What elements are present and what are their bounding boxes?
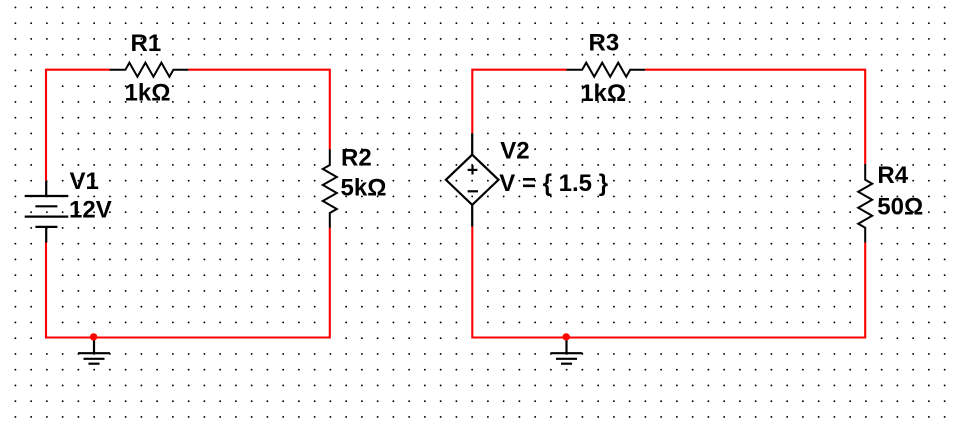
value 5kOhm — [341, 175, 387, 202]
node junction — [563, 333, 570, 340]
value 50Ohm — [877, 193, 923, 220]
wire — [46, 228, 330, 338]
label R1 — [131, 30, 162, 57]
ground right — [551, 338, 583, 364]
wire — [46, 70, 110, 181]
battery V1 — [25, 181, 69, 243]
value 1kOhm — [580, 80, 626, 107]
label R4 — [877, 162, 908, 189]
wire — [472, 227, 865, 338]
svg-text:1kΩ: 1kΩ — [580, 80, 626, 107]
wire underlay (erase grid under wires) — [46, 70, 865, 338]
label V2 — [500, 138, 529, 165]
svg-text:V1: V1 — [70, 168, 99, 195]
resistor R2 — [323, 149, 337, 228]
source V2 — [446, 133, 499, 226]
value V = { 1.5 } — [499, 170, 608, 197]
ground left — [78, 338, 110, 364]
label R2 — [341, 145, 372, 172]
resistor R3 — [567, 63, 646, 77]
svg-text:1kΩ: 1kΩ — [125, 79, 171, 106]
resistor R4 — [858, 164, 872, 243]
svg-text:12V: 12V — [69, 197, 112, 224]
svg-text:R1: R1 — [131, 30, 162, 57]
wire — [645, 70, 865, 164]
svg-text:R2: R2 — [341, 145, 372, 172]
svg-text:50Ω: 50Ω — [877, 193, 923, 220]
svg-text:5kΩ: 5kΩ — [341, 175, 387, 202]
node junction — [90, 333, 97, 340]
svg-text:R4: R4 — [877, 162, 908, 189]
label V1 — [70, 168, 99, 195]
svg-text:V2: V2 — [500, 138, 529, 165]
value 1kOhm — [125, 79, 171, 106]
svg-text:R3: R3 — [589, 30, 620, 57]
wire — [472, 70, 566, 134]
label R3 — [589, 30, 620, 57]
value 12V — [69, 197, 112, 224]
wire — [188, 70, 329, 150]
svg-text:V = { 1.5 }: V = { 1.5 } — [499, 170, 608, 197]
resistor R1 — [110, 63, 189, 77]
